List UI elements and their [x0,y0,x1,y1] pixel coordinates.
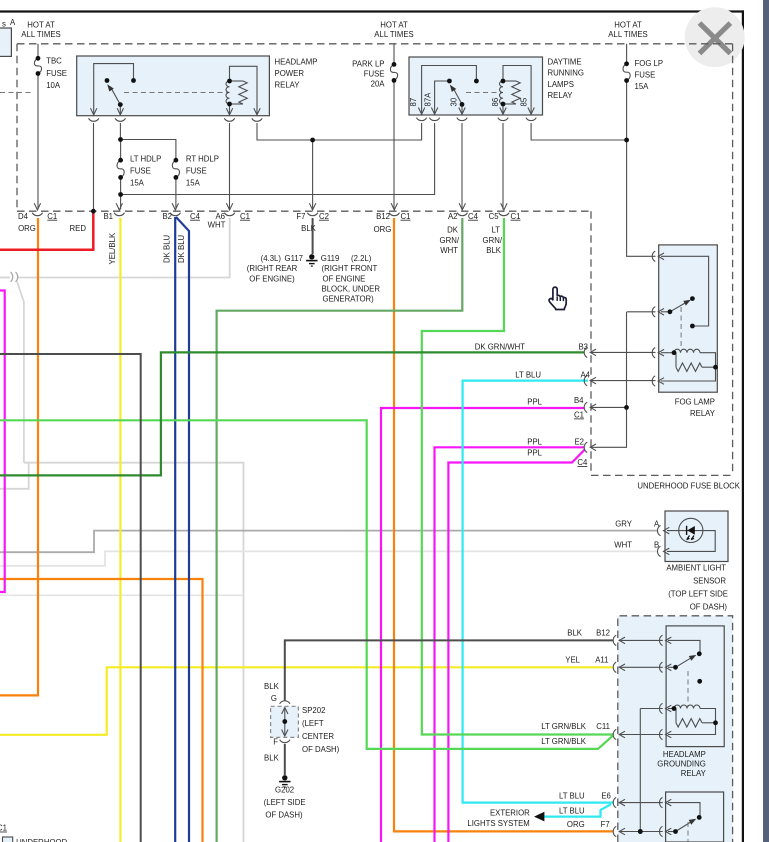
svg-text:YEL: YEL [565,656,580,665]
svg-text:15A: 15A [635,82,650,91]
svg-text:A4: A4 [580,371,590,380]
svg-text:C4: C4 [577,458,588,467]
svg-text:PARK LP: PARK LP [352,59,384,68]
svg-text:OF DASH): OF DASH) [302,745,340,754]
svg-text:FUSE: FUSE [186,167,207,176]
svg-text:(RIGHT FRONT: (RIGHT FRONT [322,264,378,273]
svg-text:RELAY: RELAY [548,91,574,100]
svg-text:B1: B1 [103,212,113,221]
svg-text:AMBIENT LIGHT: AMBIENT LIGHT [666,564,726,573]
svg-text:RELAY: RELAY [681,769,707,778]
svg-text:87A: 87A [423,92,432,107]
svg-text:YEL/BLK: YEL/BLK [108,232,117,264]
svg-text:RT HDLP: RT HDLP [186,155,219,164]
svg-text:10A: 10A [46,81,61,90]
svg-text:FUSE: FUSE [364,69,385,78]
svg-text:PPL: PPL [527,437,542,446]
svg-text:RUNNING: RUNNING [548,69,584,78]
svg-text:LT HDLP: LT HDLP [130,155,161,164]
svg-text:C1: C1 [511,212,521,221]
svg-text:A2: A2 [448,212,458,221]
svg-text:RED: RED [70,224,87,233]
svg-text:WHT: WHT [440,246,458,255]
svg-text:DK: DK [447,226,459,235]
svg-text:FOG LP: FOG LP [635,59,664,68]
svg-text:GRY: GRY [615,520,633,529]
svg-text:15A: 15A [130,179,145,188]
svg-text:F7: F7 [296,212,305,221]
svg-text:FOG LAMP: FOG LAMP [675,398,715,407]
svg-text:HEADLAMP: HEADLAMP [663,750,706,759]
svg-text:s: s [2,20,6,29]
svg-text:G119: G119 [321,254,340,263]
svg-text:A: A [654,520,660,529]
svg-text:(LEFT SIDE: (LEFT SIDE [264,798,306,807]
svg-text:DAYTIME: DAYTIME [548,58,582,67]
svg-text:LT: LT [491,226,500,235]
svg-text:B3: B3 [578,343,588,352]
svg-text:CENTER: CENTER [302,732,334,741]
svg-text:20A: 20A [371,80,386,89]
svg-text:ALL TIMES: ALL TIMES [374,30,413,39]
svg-text:GENERATOR): GENERATOR) [323,295,375,304]
svg-text:POWER: POWER [275,69,305,78]
svg-text:LT BLU: LT BLU [559,791,585,800]
svg-text:(TOP LEFT SIDE: (TOP LEFT SIDE [668,590,728,599]
svg-text:C11: C11 [596,722,610,731]
svg-text:E2: E2 [574,437,584,446]
svg-text:WHT: WHT [208,221,226,230]
svg-text:PPL: PPL [527,398,542,407]
svg-text:BLK: BLK [264,682,280,691]
svg-text:OF ENGINE): OF ENGINE) [249,274,295,283]
svg-text:G: G [271,694,277,703]
svg-text:BLK: BLK [486,246,502,255]
svg-text:ORG: ORG [18,224,36,233]
svg-text:C1: C1 [0,824,7,833]
svg-text:RELAY: RELAY [275,81,301,90]
svg-text:86: 86 [491,98,500,107]
svg-text:LT BLU: LT BLU [515,371,541,380]
svg-text:F: F [273,738,278,747]
svg-text:C1: C1 [401,212,411,221]
svg-text:PPL: PPL [527,449,542,458]
svg-text:WHT: WHT [614,541,632,550]
svg-text:G202: G202 [275,786,294,795]
svg-text:C2: C2 [319,212,329,221]
svg-text:B: B [654,541,659,550]
svg-text:UNDERHOOD FUSE BLOCK: UNDERHOOD FUSE BLOCK [637,482,740,491]
svg-text:BLK: BLK [264,754,280,763]
svg-text:TBC: TBC [46,57,62,66]
svg-text:A6: A6 [215,212,225,221]
svg-text:85: 85 [519,97,528,106]
svg-text:G117: G117 [285,254,304,263]
svg-text:GRN/: GRN/ [483,236,503,245]
svg-text:ORG: ORG [374,225,392,234]
svg-text:HEADLAMP: HEADLAMP [275,58,318,67]
svg-text:OF DASH): OF DASH) [265,811,303,820]
svg-text:D4: D4 [18,212,29,221]
svg-text:C1: C1 [574,411,584,420]
svg-text:ALL TIMES: ALL TIMES [608,30,647,39]
svg-text:F7: F7 [601,820,610,829]
svg-text:RELAY: RELAY [690,409,716,418]
svg-text:E6: E6 [601,791,611,800]
svg-text:FUSE: FUSE [635,71,656,80]
svg-text:A: A [10,18,16,27]
svg-text:ORG: ORG [567,820,585,829]
svg-text:30: 30 [449,97,458,106]
svg-text:B2: B2 [162,212,172,221]
svg-text:SP202: SP202 [302,706,325,715]
svg-text:DK GRN/WHT: DK GRN/WHT [475,343,525,352]
svg-text:(2.2L): (2.2L) [351,254,372,263]
svg-text:OF DASH): OF DASH) [690,603,728,612]
svg-text:LT GRN/BLK: LT GRN/BLK [541,737,587,746]
svg-text:GROUNDING: GROUNDING [657,760,706,769]
svg-text:HOT AT: HOT AT [614,20,642,29]
svg-text:C4: C4 [468,212,479,221]
svg-text:LAMPS: LAMPS [548,80,574,89]
svg-text:B12: B12 [376,212,390,221]
svg-text:B4: B4 [574,396,584,405]
svg-text:GRN/: GRN/ [440,236,460,245]
svg-text:ALL TIMES: ALL TIMES [21,30,60,39]
svg-text:LIGHTS SYSTEM: LIGHTS SYSTEM [467,819,529,828]
svg-text:LT BLU: LT BLU [559,807,585,816]
svg-text:BLOCK, UNDER: BLOCK, UNDER [322,284,381,293]
svg-text:DK BLU: DK BLU [162,234,171,263]
svg-text:FUSE: FUSE [130,167,151,176]
svg-text:(4.3L): (4.3L) [261,254,282,263]
svg-text:C1: C1 [240,212,250,221]
svg-text:UNDERHOOD: UNDERHOOD [16,838,67,842]
svg-text:OF ENGINE: OF ENGINE [323,274,366,283]
svg-text:HOT AT: HOT AT [380,20,408,29]
svg-text:B12: B12 [596,629,610,638]
svg-text:SENSOR: SENSOR [693,577,726,586]
svg-text:(RIGHT REAR: (RIGHT REAR [247,264,298,273]
svg-text:HOT AT: HOT AT [27,20,55,29]
svg-text:87: 87 [409,98,418,107]
svg-text:DK BLU: DK BLU [177,234,186,263]
svg-text:15A: 15A [186,179,201,188]
svg-text:FUSE: FUSE [46,69,67,78]
svg-text:A11: A11 [595,656,608,665]
svg-text:(LEFT: (LEFT [302,719,324,728]
svg-text:BLK: BLK [301,224,317,233]
svg-text:C4: C4 [190,212,201,221]
svg-text:C1: C1 [47,212,57,221]
svg-text:C5: C5 [489,212,500,221]
svg-text:BLK: BLK [567,629,583,638]
svg-text:LT GRN/BLK: LT GRN/BLK [541,722,587,731]
svg-text:EXTERIOR: EXTERIOR [490,809,530,818]
